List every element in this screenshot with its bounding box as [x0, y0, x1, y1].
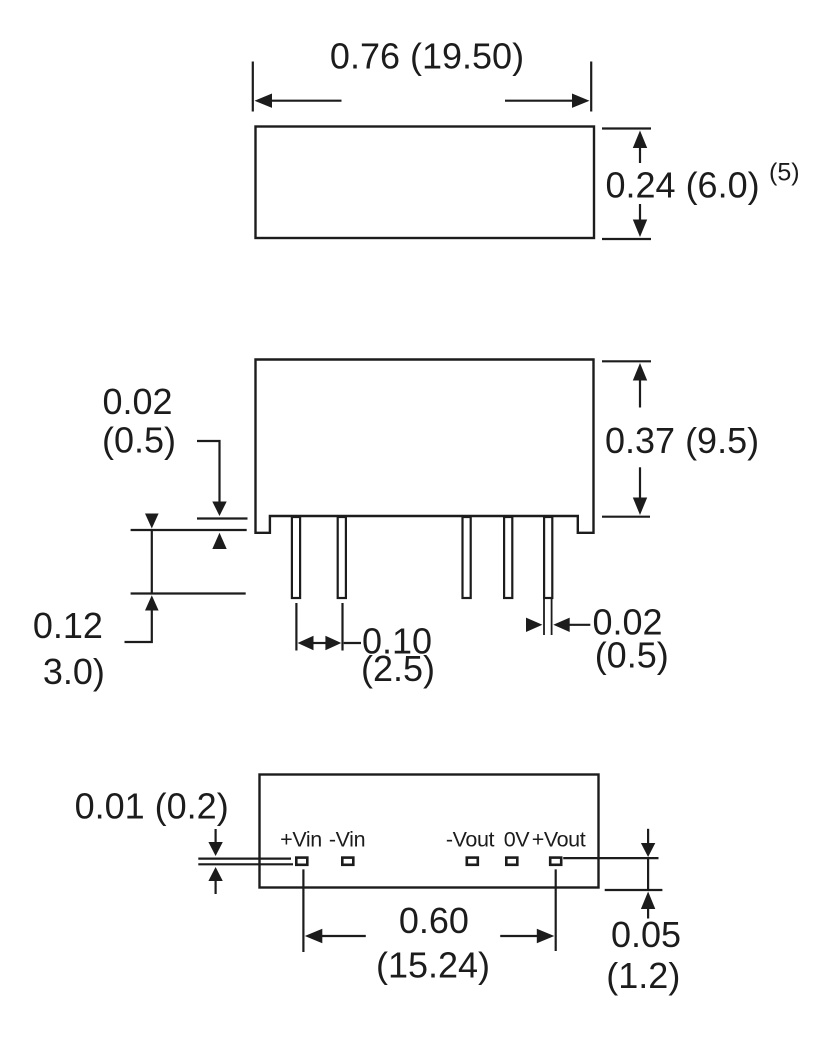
width dim extension line right [590, 62, 592, 112]
pin 2 [338, 517, 346, 598]
svg-text:0.12: 0.12 [33, 605, 103, 646]
pad thickness upper line [198, 857, 291, 859]
pad thickness label 0.01 (0.2) [75, 786, 229, 827]
width dim label 0.76 (19.50) [330, 35, 524, 76]
footnote superscript (5) [769, 159, 800, 187]
pad thickness up arrow [208, 867, 222, 894]
span label 0.60 [399, 900, 469, 941]
svg-text:0.01 (0.2): 0.01 (0.2) [75, 786, 229, 827]
pin length label 0.12 [33, 605, 103, 646]
side height dim extension line bottom [602, 516, 650, 518]
pad label +Vout [532, 828, 586, 852]
standoff label (0.5) [102, 420, 176, 461]
height dim extension line top [602, 127, 651, 129]
pad thickness lower line [198, 863, 293, 865]
height dim arrow down [633, 204, 647, 237]
svg-text:0.37 (9.5): 0.37 (9.5) [605, 420, 759, 461]
pin width label (0.5) [595, 635, 669, 676]
span label (15.24) [376, 945, 490, 986]
width dim arrow left [255, 94, 342, 108]
standoff leader with down arrow [197, 441, 227, 516]
top view body outline [256, 127, 595, 239]
svg-text:(0.5): (0.5) [102, 420, 176, 461]
span extension line pad1 [302, 869, 304, 952]
span dim arrow right [500, 929, 554, 943]
svg-text:-Vout: -Vout [446, 828, 495, 852]
edge dim top arrow [641, 829, 655, 890]
standoff label 0.02 [102, 381, 172, 422]
standoff lower line [131, 529, 247, 531]
side view body outline with standoff feet [256, 360, 594, 533]
pad 5 +Vout [550, 858, 561, 865]
svg-text:0.24 (6.0): 0.24 (6.0) [606, 165, 760, 206]
pad label +Vin [280, 828, 322, 852]
pitch extension line pin2 [341, 603, 343, 651]
svg-text:+Vout: +Vout [532, 828, 586, 852]
edge dim pad-level extension line [563, 857, 658, 859]
svg-text:(1.2): (1.2) [606, 955, 680, 996]
svg-text:-Vin: -Vin [329, 828, 365, 852]
pad label 0V [504, 828, 531, 852]
svg-text:(0.5): (0.5) [595, 635, 669, 676]
span extension line pad5 [555, 869, 557, 951]
pitch dim arrows [298, 636, 361, 650]
bottom view body outline [260, 775, 599, 888]
svg-text:0.05: 0.05 [611, 914, 681, 955]
pad 1 +Vin [296, 858, 307, 865]
svg-text:0.76 (19.50): 0.76 (19.50) [330, 35, 524, 76]
height dim arrow up [633, 131, 647, 164]
pad label -Vin [329, 828, 365, 852]
width dim arrow right [505, 94, 590, 108]
svg-text:0.60: 0.60 [399, 900, 469, 941]
svg-text:(2.5): (2.5) [361, 648, 435, 689]
side height dim arrow down [633, 467, 647, 515]
pad 3 -Vout [467, 858, 478, 865]
pad thickness down arrow [208, 829, 222, 856]
edge dim bottom arrow [641, 892, 655, 919]
pin 1 [292, 517, 300, 598]
width dim extension line left [252, 62, 254, 112]
pin 4 [504, 517, 512, 598]
pitch label 0.10 [362, 621, 432, 662]
height dim label 0.24 (6.0) [606, 165, 760, 206]
span dim arrow left [305, 929, 366, 943]
svg-text:0.02: 0.02 [102, 381, 172, 422]
svg-text:(5): (5) [769, 159, 800, 187]
pin length dim top arrow [145, 514, 159, 529]
side height dim arrow up [633, 363, 647, 408]
pad 2 -Vin [342, 858, 353, 865]
side height label 0.37 (9.5) [605, 420, 759, 461]
pin length extension line bottom [131, 592, 246, 594]
pin width dim arrows [526, 618, 590, 632]
edge dim lower extension line [605, 889, 663, 891]
pin 3 [463, 517, 471, 598]
svg-text:(15.24): (15.24) [376, 945, 490, 986]
pad label -Vout [446, 828, 495, 852]
pin 5 long [544, 517, 552, 635]
pitch label (2.5) [361, 648, 435, 689]
edge dim label 0.05 [611, 914, 681, 955]
pitch extension line pin1 [295, 603, 297, 651]
pin width label 0.02 [593, 602, 663, 643]
edge dim label (1.2) [606, 955, 680, 996]
pad 4 0V [506, 858, 517, 865]
standoff up arrow [212, 533, 226, 549]
pin length label 3.0) [43, 651, 105, 692]
pin length dim line [151, 530, 153, 594]
svg-text:+Vin: +Vin [280, 828, 322, 852]
pin length dim bottom arrow with leader [125, 595, 159, 642]
side height dim extension line top [602, 360, 651, 362]
svg-text:0V: 0V [504, 828, 531, 852]
svg-text:3.0): 3.0) [43, 651, 105, 692]
height dim extension line bottom [602, 238, 651, 240]
standoff upper line [197, 517, 248, 519]
